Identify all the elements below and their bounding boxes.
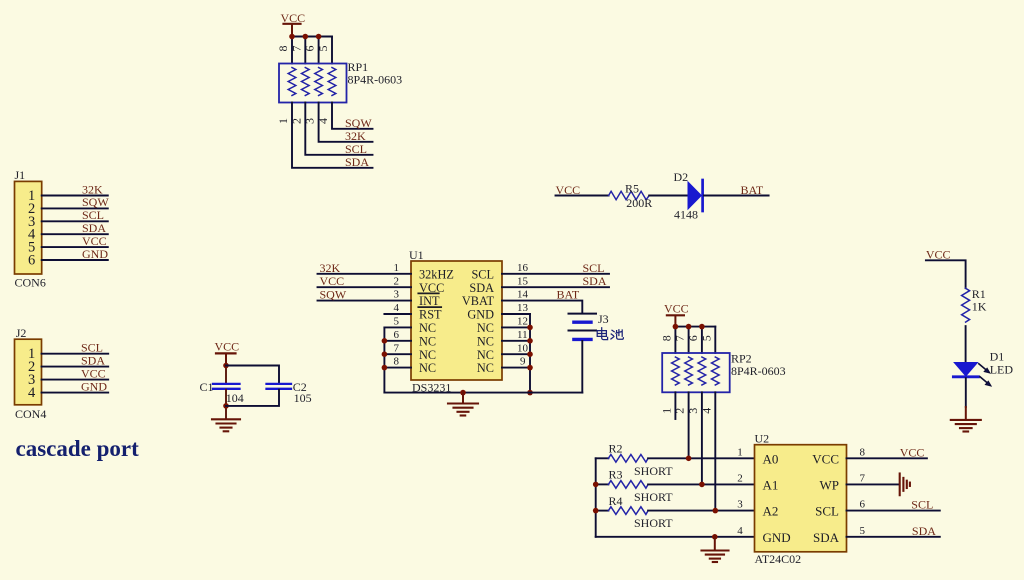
LED D1 cathode bar: [953, 375, 978, 378]
svg-text:VCC: VCC: [664, 301, 689, 315]
resistor element RP1-c: [315, 68, 323, 96]
resistor element RP1-a: [288, 68, 296, 96]
svg-text:200R: 200R: [626, 196, 652, 210]
svg-text:cascade port: cascade port: [16, 436, 140, 461]
wire C1 lower segment: [225, 390, 227, 419]
svg-text:VCC: VCC: [215, 339, 240, 353]
svg-text:7: 7: [860, 473, 866, 485]
svg-text:SCL: SCL: [471, 267, 494, 281]
wire U1 pin13 (GND): [502, 313, 530, 315]
C1C2-GROUP: [200, 339, 312, 431]
svg-text:1K: 1K: [972, 300, 987, 314]
battery J3 plate 1: [569, 313, 597, 315]
svg-text:SCL: SCL: [815, 504, 839, 519]
svg-text:VCC: VCC: [812, 451, 839, 466]
svg-text:GND: GND: [763, 530, 791, 545]
svg-text:SDA: SDA: [469, 281, 494, 295]
power VCC (RP2 top): [664, 301, 689, 326]
svg-text:SQW: SQW: [320, 288, 347, 302]
overbar INT (U1): [418, 292, 439, 294]
wire U1 pin10 (NC): [502, 353, 530, 355]
capacitor C2 plates: [267, 384, 292, 389]
wire R1 to D1: [965, 326, 967, 362]
resistor element RP2-b: [685, 357, 693, 385]
ground symbol (D1): [951, 407, 981, 432]
wire U2 pin8 (VCC): [847, 457, 927, 459]
svg-text:8P4R-0603: 8P4R-0603: [731, 364, 786, 378]
svg-text:LED: LED: [990, 362, 1014, 376]
wire U1 NC tie left vertical: [383, 327, 385, 392]
junction dot RP2 pin3 / A1: [699, 482, 705, 488]
resistor R3: [608, 481, 648, 489]
wire U1 pin12 (NC): [502, 326, 530, 328]
junction dots U1 left NC tie: [382, 338, 388, 370]
svg-text:5: 5: [316, 46, 330, 52]
svg-text:4: 4: [737, 525, 743, 537]
svg-text:R3: R3: [609, 468, 623, 482]
svg-text:6: 6: [394, 329, 400, 341]
svg-text:1: 1: [276, 118, 290, 124]
wire U1 pin5 (NC): [384, 326, 411, 328]
wire J1 pin1: [42, 195, 108, 197]
svg-text:2: 2: [394, 275, 400, 287]
wire RP1 pin4 to SQW: [332, 103, 373, 129]
LED D1 arrow 1: [979, 364, 990, 373]
wire C1 upper segment: [225, 366, 227, 384]
resistor element RP2-d: [712, 357, 720, 385]
junction dots U1 right NC tie: [527, 325, 533, 396]
svg-text:NC: NC: [419, 321, 436, 335]
wire RP2 pin2 to A0: [688, 392, 690, 458]
wire U2 pin7 (WP): [847, 483, 899, 485]
RP1-GROUP: [276, 11, 402, 169]
svg-text:J1: J1: [15, 168, 26, 182]
svg-text:R4: R4: [609, 494, 623, 508]
ground symbol (U2): [702, 537, 729, 562]
wire U1 pin1 (32K): [318, 273, 412, 275]
LED D1 arrow 2: [980, 377, 991, 386]
wire R4 to U2 A2: [648, 510, 754, 512]
wire U2 pin6 (SCL): [847, 510, 940, 512]
svg-text:2: 2: [737, 473, 743, 485]
svg-text:SHORT: SHORT: [634, 464, 673, 478]
wire RP1 pin7 vertical: [304, 37, 306, 64]
RP2-GROUP: [659, 301, 785, 510]
svg-text:32K: 32K: [320, 261, 341, 275]
wire RP2 pin6 vertical: [701, 327, 703, 353]
ground symbol (U1): [448, 393, 478, 416]
svg-text:AT24C02: AT24C02: [755, 552, 802, 566]
svg-text:3: 3: [394, 289, 400, 301]
svg-text:SHORT: SHORT: [634, 490, 673, 504]
U1-GROUP: [318, 248, 624, 416]
U2-GROUP: [737, 432, 940, 566]
diode D2 triangle: [688, 182, 701, 209]
resistor element RP2-a: [672, 357, 680, 385]
svg-text:R5: R5: [625, 182, 639, 196]
wire R3 left stub: [596, 483, 609, 485]
svg-text:VCC: VCC: [81, 366, 106, 380]
svg-text:A1: A1: [763, 477, 779, 492]
svg-text:BAT: BAT: [741, 183, 764, 197]
battery J3 plate 3: [569, 330, 597, 332]
resistor element RP1-b: [301, 68, 309, 96]
wire R2 left stub: [596, 457, 609, 459]
junction dots RP1 top: [289, 34, 321, 40]
value battery chinese (J3): [597, 328, 623, 340]
wire R3 to U2 A1: [648, 483, 754, 485]
svg-text:BAT: BAT: [557, 288, 580, 302]
wire RP2 pin8 vertical: [674, 327, 676, 353]
junction dot C1 top: [223, 363, 229, 369]
svg-text:A2: A2: [763, 504, 779, 519]
svg-text:VBAT: VBAT: [462, 294, 495, 308]
svg-text:8: 8: [276, 46, 290, 52]
svg-text:10: 10: [517, 342, 529, 354]
wire RP1 top bus: [292, 36, 332, 38]
svg-text:15: 15: [517, 275, 529, 287]
svg-text:CON6: CON6: [15, 276, 46, 290]
svg-text:6: 6: [686, 335, 700, 341]
resistor pack RP1 body: [279, 64, 347, 103]
svg-text:8: 8: [860, 446, 866, 458]
wire RP1 pin1 to SDA: [292, 103, 373, 168]
svg-text:SDA: SDA: [81, 353, 105, 367]
svg-text:11: 11: [517, 329, 528, 341]
svg-text:NC: NC: [477, 334, 494, 348]
svg-text:4: 4: [28, 385, 36, 401]
svg-text:SCL: SCL: [81, 341, 103, 355]
svg-text:SQW: SQW: [82, 195, 109, 209]
svg-text:8P4R-0603: 8P4R-0603: [348, 73, 403, 87]
junction dots RP2 top: [673, 324, 705, 330]
wire RP1 pin5 vertical: [331, 37, 333, 64]
svg-text:104: 104: [226, 391, 244, 405]
svg-text:4: 4: [394, 302, 400, 314]
resistor R4: [608, 507, 648, 515]
svg-text:8: 8: [394, 356, 400, 368]
svg-text:SCL: SCL: [345, 142, 367, 156]
wire VCC to R1: [926, 260, 966, 288]
svg-text:DS3231: DS3231: [412, 381, 451, 395]
wire U1 pin7 (NC): [384, 353, 411, 355]
svg-text:14: 14: [517, 289, 529, 301]
wire C2 branch bottom: [226, 390, 279, 406]
svg-text:VCC: VCC: [320, 274, 345, 288]
capacitor C1 plates: [213, 384, 240, 389]
connector J1 body: [15, 181, 42, 274]
svg-text:SDA: SDA: [345, 155, 369, 169]
wire battery J3 bottom: [581, 341, 583, 393]
wire U1 pin6 (NC): [384, 340, 411, 342]
svg-text:VCC: VCC: [900, 445, 925, 459]
svg-text:U1: U1: [409, 248, 424, 262]
RNET-GROUP: [593, 442, 755, 563]
svg-text:SDA: SDA: [583, 274, 607, 288]
wire R2 to U2 A0: [648, 457, 754, 459]
wire J1 pin4: [42, 233, 108, 235]
R1D1-GROUP: [926, 248, 1013, 432]
wire J1 pin3: [42, 220, 108, 222]
svg-text:SDA: SDA: [813, 530, 840, 545]
svg-text:5: 5: [860, 525, 866, 537]
svg-text:VCC: VCC: [82, 234, 107, 248]
svg-text:NC: NC: [477, 348, 494, 362]
wire J2 pin3: [42, 379, 109, 381]
svg-text:D2: D2: [674, 170, 689, 184]
svg-text:SDA: SDA: [82, 221, 106, 235]
wire U1 pin11 (NC): [502, 340, 530, 342]
wire U1 pin14 (VBAT to battery): [502, 301, 582, 313]
resistor R1: [962, 288, 970, 322]
svg-text:SCL: SCL: [911, 498, 933, 512]
junction dot RP2 pin2 / A0: [686, 456, 692, 462]
wire RP2 pin7 vertical: [688, 327, 690, 353]
svg-text:A0: A0: [763, 451, 779, 466]
wire RP2 pin1 stub: [674, 392, 676, 419]
wire RP2 pin5 vertical: [714, 327, 716, 353]
wire U1 pin8 (NC): [384, 367, 411, 369]
svg-text:NC: NC: [477, 361, 494, 375]
wire RP2 pin4 to A2: [714, 392, 716, 510]
J1-GROUP: [15, 168, 110, 290]
diode D2 cathode bar: [701, 180, 704, 211]
battery J3 plate 4: [574, 338, 591, 341]
svg-text:7: 7: [289, 46, 303, 52]
svg-text:SCL: SCL: [583, 261, 605, 275]
svg-text:NC: NC: [419, 361, 436, 375]
wire R2R3R4 left tie vertical: [595, 458, 597, 537]
wire U1 pin2 (VCC): [318, 286, 412, 288]
svg-text:SDA: SDA: [912, 524, 936, 538]
svg-text:13: 13: [517, 302, 529, 314]
wire U2 pin5 (SDA): [847, 536, 940, 538]
resistor element RP1-d: [328, 68, 336, 96]
wire U1 bottom ground bus: [384, 392, 582, 394]
svg-text:WP: WP: [820, 477, 840, 492]
wire VCC to R5: [556, 195, 609, 197]
wire RP2 top bus: [675, 326, 715, 328]
wire R4 left stub: [596, 510, 609, 512]
svg-text:NC: NC: [419, 348, 436, 362]
ground symbol rotated (WP): [900, 474, 910, 496]
svg-text:NC: NC: [477, 321, 494, 335]
resistor element RP2-c: [698, 357, 706, 385]
svg-text:GND: GND: [81, 379, 107, 393]
ground symbol (C1): [212, 419, 240, 431]
IC U2 body: [755, 445, 847, 552]
wire J1 pin2: [42, 207, 108, 209]
R5D2-GROUP: [556, 170, 769, 222]
svg-text:SQW: SQW: [345, 116, 372, 130]
svg-text:6: 6: [303, 46, 317, 52]
wire D2 to BAT: [704, 195, 769, 197]
battery J3 plate 2: [574, 321, 591, 324]
svg-text:32K: 32K: [345, 129, 366, 143]
junction dots left tie: [593, 482, 599, 514]
svg-text:RST: RST: [419, 308, 442, 322]
svg-text:NC: NC: [419, 334, 436, 348]
svg-text:6: 6: [28, 253, 35, 269]
svg-text:7: 7: [673, 335, 687, 341]
wire U1 right NC tie vertical: [529, 314, 531, 393]
svg-text:1: 1: [394, 262, 400, 274]
wire R5 to D2: [649, 195, 688, 197]
svg-text:SCL: SCL: [82, 208, 104, 222]
svg-text:16: 16: [517, 262, 529, 274]
resistor R5: [609, 191, 650, 199]
svg-text:C1: C1: [200, 380, 214, 394]
wire J2 pin2: [42, 366, 109, 368]
junction dot ground tap (U2): [712, 534, 718, 540]
wire RP1 pin2 to SCL: [305, 103, 372, 155]
svg-text:U2: U2: [755, 432, 770, 446]
svg-text:105: 105: [294, 391, 312, 405]
wire RP2 pin3 to A1: [701, 392, 703, 484]
svg-text:32K: 32K: [82, 182, 103, 196]
svg-text:8: 8: [659, 335, 673, 341]
svg-text:1: 1: [659, 408, 673, 414]
wire RP1 pin3 to 32K: [319, 103, 373, 142]
svg-text:1: 1: [737, 446, 743, 458]
svg-text:CON4: CON4: [15, 407, 46, 421]
svg-text:INT: INT: [419, 294, 440, 308]
connector J2 body: [15, 339, 42, 405]
svg-text:32kHZ: 32kHZ: [419, 267, 454, 281]
wire J1 pin5: [42, 246, 108, 248]
wire ground bus to U2 GND: [596, 536, 755, 538]
svg-text:9: 9: [520, 356, 526, 368]
wire J1 pin6: [42, 259, 108, 261]
svg-text:4148: 4148: [674, 208, 698, 222]
wire RP1 pin8 vertical: [291, 37, 293, 64]
wire J2 pin4: [42, 392, 109, 394]
resistor R2: [608, 455, 648, 463]
wire U1 pin3 (SQW): [318, 300, 412, 302]
svg-text:GND: GND: [82, 247, 108, 261]
svg-text:GND: GND: [467, 308, 494, 322]
IC U1 body: [411, 261, 502, 380]
wire D1 to ground: [965, 378, 967, 407]
svg-text:12: 12: [517, 316, 528, 328]
svg-text:6: 6: [860, 499, 866, 511]
wire U1 pin9 (NC): [502, 367, 530, 369]
junction dot C1 bottom: [223, 403, 229, 409]
overbar RST (U1): [418, 306, 441, 308]
power VCC (RP1 top): [281, 11, 306, 37]
svg-text:J3: J3: [598, 312, 609, 326]
wire U1 pin15 (SDA): [502, 286, 609, 288]
wire C2 branch top: [226, 366, 279, 384]
svg-text:7: 7: [394, 342, 400, 354]
svg-text:J2: J2: [16, 326, 27, 340]
LED D1 triangle: [954, 363, 977, 377]
wire J2 pin1: [42, 353, 109, 355]
svg-text:5: 5: [394, 316, 400, 328]
wire U1 pin16 (SCL): [502, 273, 609, 275]
svg-text:3: 3: [737, 499, 743, 511]
svg-text:R2: R2: [609, 442, 623, 456]
wire U1 pin4 stub (RST): [384, 313, 411, 315]
resistor pack RP2 body: [662, 353, 730, 392]
svg-text:5: 5: [699, 335, 713, 341]
junction dot RP2 pin4 / A2: [713, 508, 719, 514]
J2-GROUP: [15, 326, 140, 461]
wire RP1 pin6 vertical: [318, 37, 320, 64]
junction dot ground tap (U1): [460, 390, 466, 396]
svg-text:SHORT: SHORT: [634, 516, 673, 530]
power VCC (C1 top): [215, 339, 240, 365]
